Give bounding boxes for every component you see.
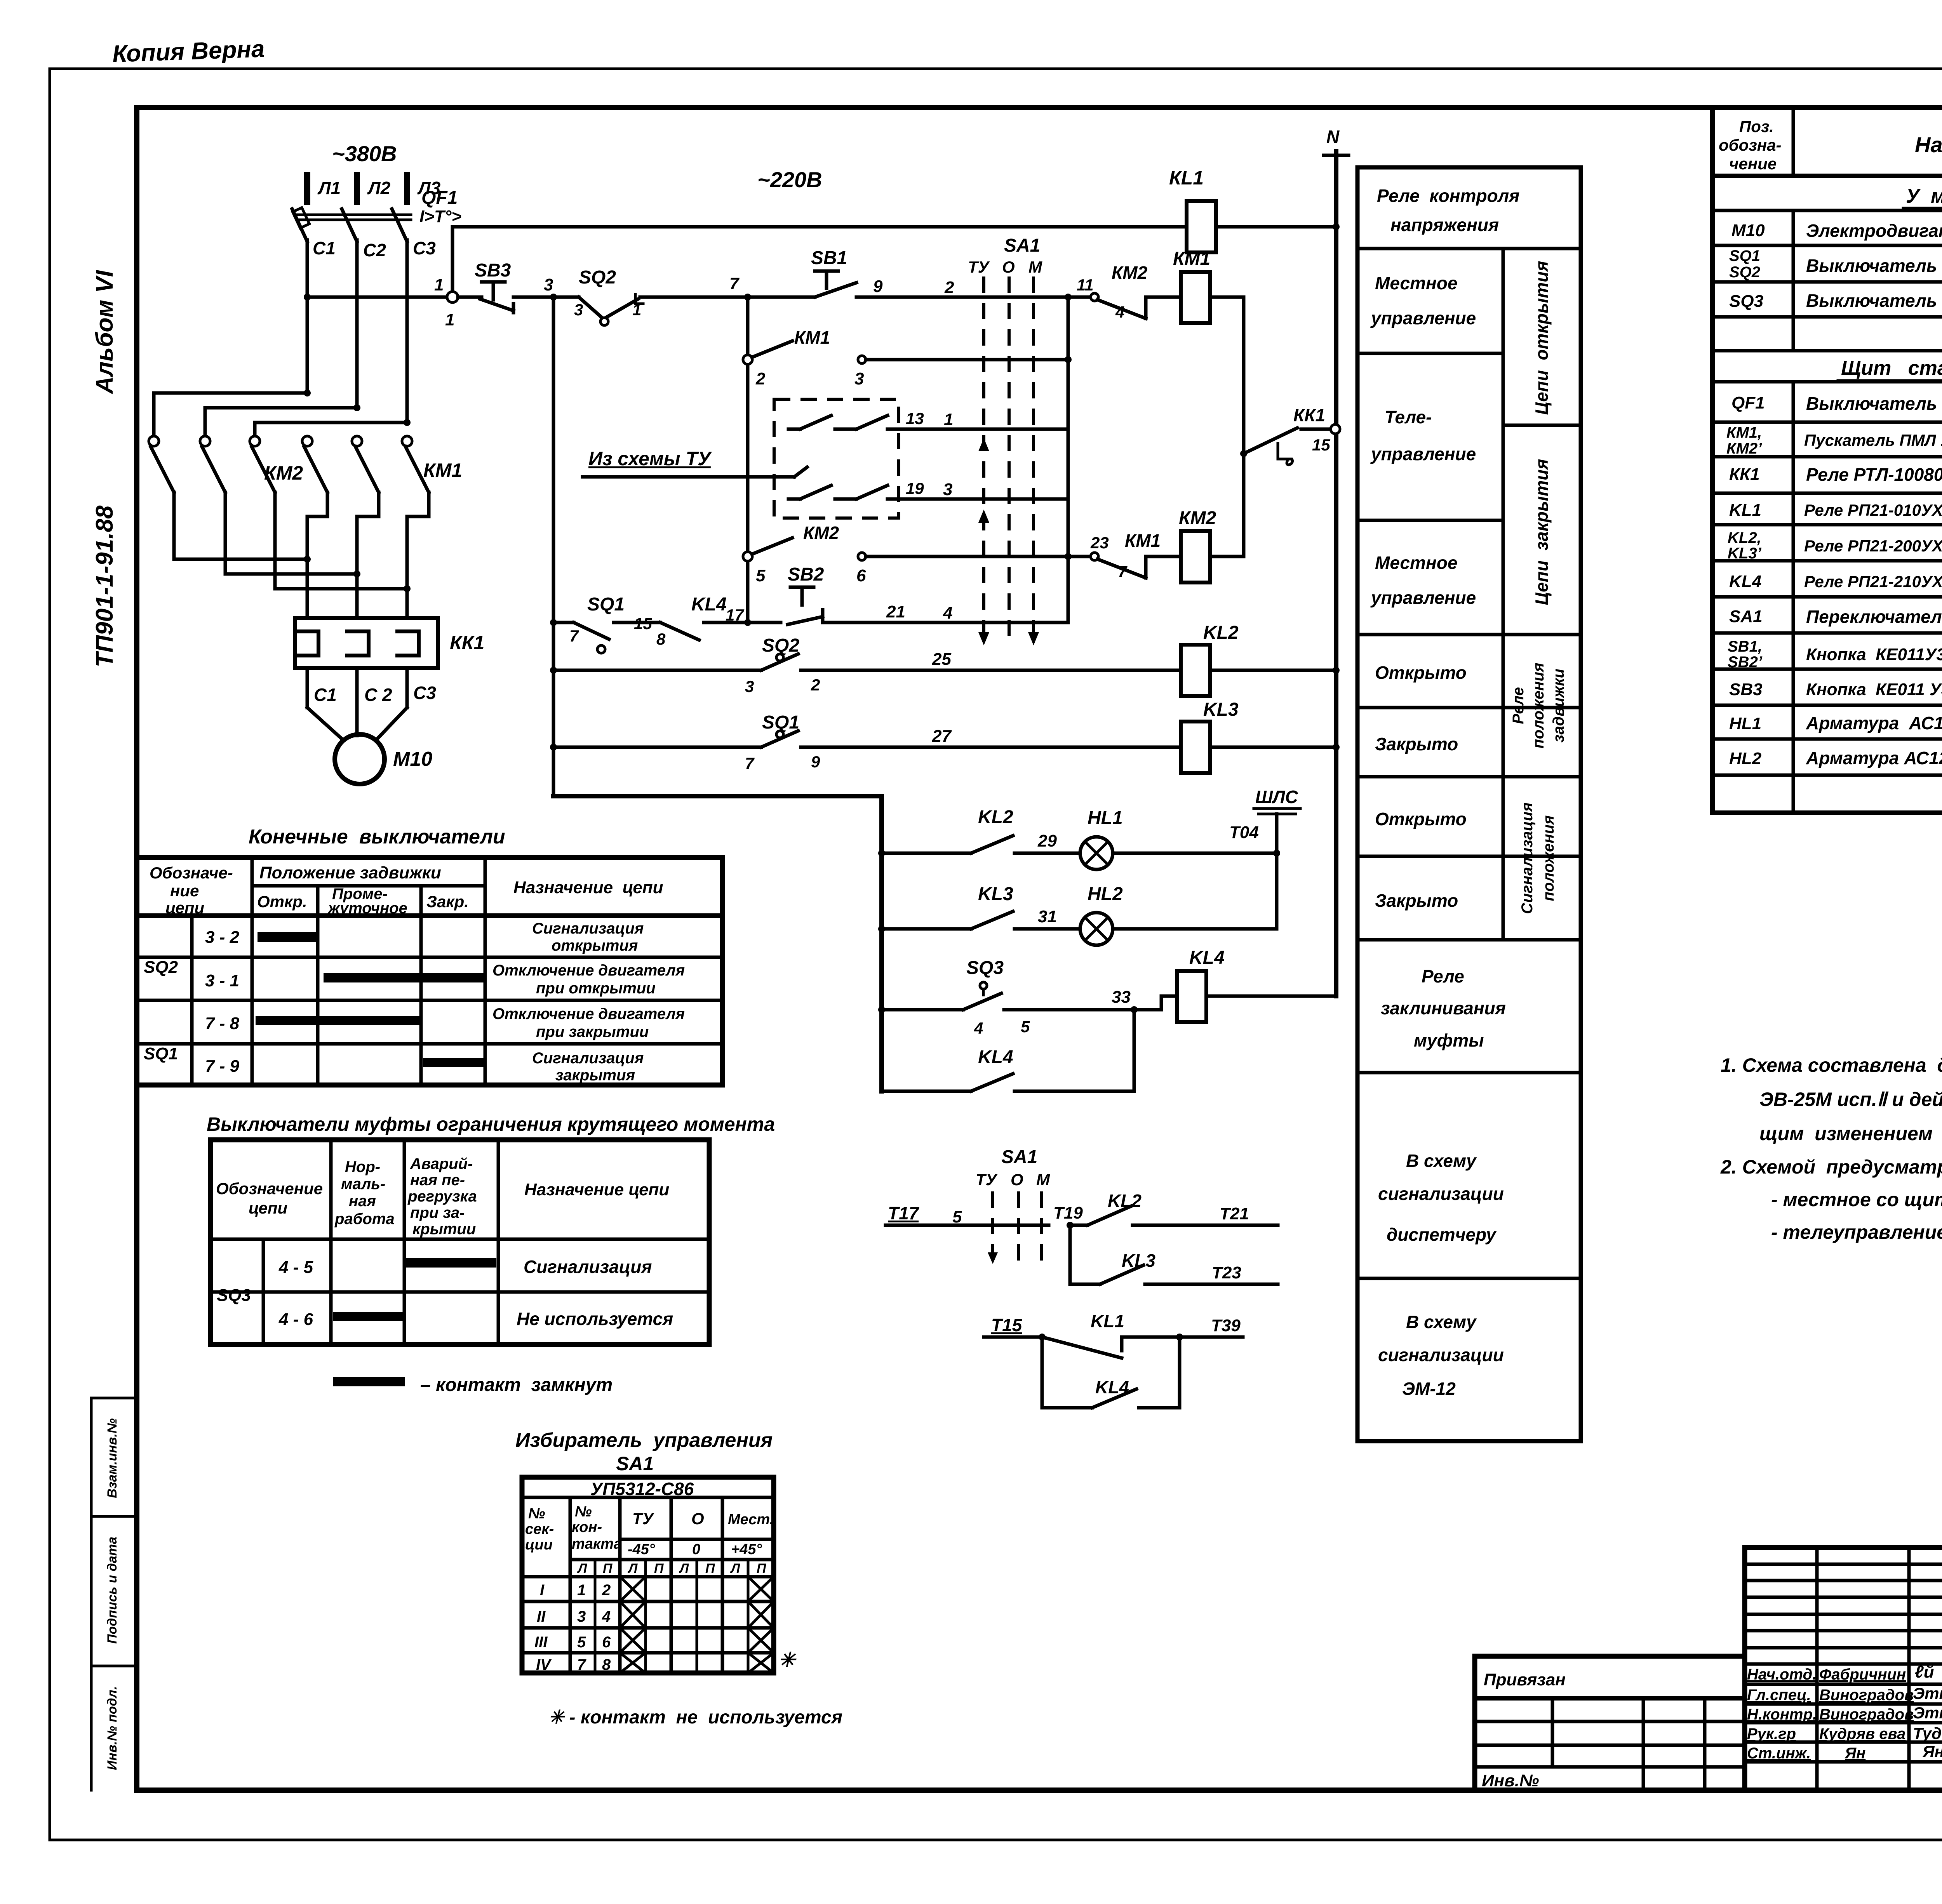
part row KL4 [1729, 570, 1942, 591]
svg-text:Отключение двигателя: Отключение двигателя [492, 1005, 685, 1022]
wire to T39 [1122, 1316, 1243, 1341]
contact KL2 telemetry [1070, 1191, 1142, 1225]
table limit switches frame [137, 857, 722, 1085]
svg-text:Инв.№: Инв.№ [1482, 1771, 1539, 1790]
left rail from node 3 down [552, 297, 555, 796]
label: to dispatcher signalling [1378, 1151, 1504, 1245]
svg-text:Обозначение: Обозначение [216, 1179, 323, 1198]
svg-text:Гл.спец.: Гл.спец. [1747, 1687, 1811, 1704]
svg-text:КМ1: КМ1 [1125, 530, 1161, 551]
svg-text:Л2: Л2 [367, 178, 391, 198]
svg-text:Реле контроля: Реле контроля [1377, 186, 1519, 206]
svg-text:Т04: Т04 [1229, 823, 1259, 842]
wire KM2 pole 1 to phase A junction [174, 492, 311, 563]
rung KL2 signal open: wire start [550, 667, 761, 674]
svg-text:SB3: SB3 [1729, 680, 1763, 699]
wire rung2 to right vertical [866, 356, 1072, 363]
wire 27 to KL3 coil [801, 727, 1181, 747]
svg-text:кон-: кон- [572, 1519, 602, 1535]
svg-text:SQ2: SQ2 [579, 267, 616, 288]
selector SA1 dashed lines upper [968, 235, 1042, 645]
selector table SA1 [522, 1477, 774, 1673]
svg-text:21: 21 [886, 602, 905, 621]
table1 row labels [144, 928, 240, 1076]
section heading: control station board 1Shch [1838, 357, 1942, 381]
label: tele control [1370, 407, 1476, 464]
svg-text:Кнопка КЕ011 У3 исп. 5 толк,: Кнопка КЕ011 У3 исп. 5 толк, красный [1806, 680, 1942, 699]
svg-text:при открытии: при открытии [536, 980, 656, 997]
svg-text:Избиратель управления: Избиратель управления [515, 1429, 773, 1452]
label: clutch jam relay [1381, 966, 1506, 1050]
svg-text:П: П [705, 1561, 715, 1576]
svg-text:ние: ние [170, 882, 199, 900]
top 220V bus wire [452, 225, 1187, 229]
svg-text:заклинивания: заклинивания [1381, 998, 1506, 1018]
note line "Iz skhemy TU" [583, 448, 807, 477]
svg-text:SA1: SA1 [1004, 235, 1040, 256]
svg-text:КМ2: КМ2 [1179, 508, 1216, 529]
svg-text:такта: такта [572, 1536, 622, 1552]
relay coil KL1 [1169, 167, 1216, 252]
svg-text:Сигнализация: Сигнализация [1519, 802, 1536, 914]
svg-text:КМ1: КМ1 [1173, 249, 1210, 269]
svg-text:Т21: Т21 [1220, 1204, 1249, 1223]
table1 purpose texts [492, 920, 685, 1084]
svg-text:ции: ции [525, 1537, 553, 1553]
rung SQ1 KL4 SB2: wire start [550, 619, 574, 626]
svg-text:IV: IV [536, 1656, 552, 1673]
svg-text:Л: Л [730, 1561, 740, 1576]
wire KM1 pole 3 down [407, 492, 429, 618]
svg-text:2. Схемой предусматривается: 2. Схемой предусматривается два вида упр… [1720, 1156, 1942, 1178]
svg-text:19: 19 [906, 479, 924, 497]
rotated label: opening circuits [1531, 261, 1552, 415]
svg-text:Рук.гр: Рук.гр [1747, 1725, 1796, 1742]
svg-text:Реле РП21-210УХЛ4 с розеткой т: Реле РП21-210УХЛ4 с розеткой типа З U~22… [1804, 572, 1942, 591]
svg-text:Альбом VI: Альбом VI [91, 270, 118, 395]
telecontrol dashed box [774, 399, 899, 518]
svg-text:SA1: SA1 [616, 1453, 654, 1475]
svg-text:Виноградов: Виноградов [1819, 1706, 1914, 1723]
svg-text:II: II [537, 1608, 546, 1625]
svg-text:Этт: Этт [1913, 1704, 1942, 1722]
svg-text:KL1: KL1 [1729, 501, 1761, 520]
parts table grid [1712, 108, 1942, 813]
svg-text:Открыто: Открыто [1375, 809, 1467, 829]
pushbutton SB2 (NC) [788, 564, 824, 624]
svg-text:2: 2 [755, 369, 766, 388]
node T19 [1053, 1203, 1083, 1229]
svg-text:Н.контр.: Н.контр. [1747, 1706, 1817, 1723]
wire to T23 [1145, 1263, 1278, 1284]
svg-text:задвижки: задвижки [1550, 669, 1567, 742]
svg-text:6: 6 [602, 1634, 611, 1651]
title block signature grid [1745, 1548, 1942, 1790]
wire T15 rung [984, 1315, 1046, 1341]
svg-text:Арматура АС1201393 U~220В: Арматура АС1201393 U~220В [1806, 748, 1942, 768]
svg-text:Л: Л [679, 1561, 689, 1576]
svg-text:SA1: SA1 [1729, 607, 1763, 626]
svg-text:Переключатель УП5312-С86У3: Переключатель УП5312-С86У3 [1806, 607, 1942, 627]
svg-text:3: 3 [854, 369, 864, 388]
svg-text:КМ2’: КМ2’ [1726, 440, 1762, 457]
svg-text:Конечные выключатели: Конечные выключатели [249, 826, 505, 848]
handwritten stamp "Kopiya Verna" top-left [112, 35, 265, 68]
clutch switch SQ3 contact [963, 958, 1030, 1037]
svg-text:диспетчеру: диспетчеру [1387, 1224, 1497, 1245]
svg-text:Реле РТЛ-10080✱4В Iнэ=2,65А: Реле РТЛ-10080✱4В Iнэ=2,65А [1806, 464, 1942, 485]
svg-text:I: I [540, 1582, 545, 1599]
svg-text:KL3: KL3 [978, 884, 1013, 904]
svg-text:3: 3 [577, 1608, 586, 1625]
svg-text:7 - 8: 7 - 8 [205, 1014, 240, 1033]
travel switch SQ1 contact [569, 594, 666, 653]
wire SB2 to right vertical, numbers 21 and 4 [823, 602, 1068, 622]
svg-text:Реле РП21-010УХЛ4 с розеткой т: Реле РП21-010УХЛ4 с розеткой типа 3 U~22… [1804, 501, 1942, 519]
svg-text:цепи: цепи [249, 1199, 287, 1217]
svg-text:жуточное: жуточное [327, 900, 407, 917]
svg-text:Т15: Т15 [991, 1315, 1023, 1335]
contact KL4 bypass telemetry [1042, 1337, 1180, 1408]
svg-text:SB2’: SB2’ [1728, 654, 1763, 671]
svg-text:SQ1: SQ1 [144, 1044, 178, 1063]
wire HL1 to SHLS riser, number 104 [1113, 823, 1280, 857]
svg-text:ТУ: ТУ [632, 1509, 655, 1528]
svg-text:~380В: ~380В [332, 141, 397, 166]
relay coil KL3 [1181, 699, 1239, 773]
svg-text:SB2: SB2 [788, 564, 824, 585]
svg-text:В схему: В схему [1406, 1151, 1477, 1171]
wire rung1 SA1 to KM2 contact, number 11 [1065, 276, 1094, 301]
svg-text:7: 7 [745, 754, 755, 772]
part row SB3 [1729, 679, 1942, 699]
svg-text:С1: С1 [314, 685, 337, 705]
svg-text:цепи: цепи [165, 899, 204, 917]
svg-text:+45°: +45° [731, 1541, 762, 1558]
thermal overload relay KK1 [295, 618, 484, 668]
svg-text:обозна-: обозна- [1719, 136, 1781, 154]
svg-text:Наименование: Наименование [1915, 132, 1942, 157]
svg-text:ТП901-1-91.88: ТП901-1-91.88 [91, 505, 118, 667]
svg-text:Нор-: Нор- [345, 1158, 380, 1175]
table1 headers [150, 863, 663, 917]
svg-text:1: 1 [944, 410, 953, 429]
svg-text:напряжения: напряжения [1390, 215, 1499, 235]
wire KM1 pole 2 down [357, 492, 379, 618]
svg-text:Копия Верна: Копия Верна [112, 35, 265, 68]
svg-text:SQ3: SQ3 [1729, 292, 1763, 311]
svg-text:КМ2: КМ2 [264, 462, 303, 484]
svg-text:М10: М10 [1731, 221, 1765, 240]
svg-text:Цепи закрытия: Цепи закрытия [1531, 459, 1552, 605]
pushbutton SB1 (NO) [811, 248, 856, 297]
contact KM2 NC interlock on rung 1 [1091, 263, 1148, 321]
svg-text:Закрыто: Закрыто [1375, 734, 1458, 754]
svg-text:KL3: KL3 [1203, 699, 1239, 720]
svg-text:С 2: С 2 [364, 685, 392, 705]
svg-text:при закрытии: при закрытии [536, 1023, 649, 1040]
neutral bus N [1324, 151, 1349, 996]
contactor coil KM2 [1179, 508, 1216, 583]
wire phase B QF1 to crossover [355, 240, 359, 408]
wire KM2 pole 3 to phase C junction [275, 492, 411, 592]
svg-text:4: 4 [1115, 303, 1124, 321]
svg-text:Нач.отд.: Нач.отд. [1747, 1666, 1817, 1683]
KL4 self-hold bypass rung [882, 1010, 1134, 1091]
wire KM1 coil to right rail [1210, 297, 1244, 556]
svg-text:сигнализации: сигнализации [1378, 1184, 1504, 1204]
lamp rung HL2: wire start [878, 925, 971, 932]
svg-text:N: N [1326, 127, 1340, 147]
rung KL3 signal closed: wire start [550, 744, 761, 751]
contact KL3 telemetry [1070, 1250, 1155, 1284]
label: local control (open) [1370, 273, 1476, 328]
svg-text:Фабричнин: Фабричнин [1819, 1666, 1906, 1683]
table2 headers [216, 1155, 669, 1238]
part row SA1 [1729, 606, 1942, 627]
svg-text:Поз.: Поз. [1739, 117, 1774, 136]
svg-text:Тудфр,: Тудфр, [1913, 1724, 1942, 1742]
svg-text:0: 0 [692, 1541, 700, 1558]
TU contact pair lower [788, 485, 899, 499]
svg-text:КL1: КL1 [1169, 167, 1204, 189]
relay coil KL2 [1181, 622, 1239, 696]
wire riser node1 to bus [451, 227, 454, 297]
svg-text:П: П [603, 1561, 613, 1576]
wire 25 to KL2 coil [801, 650, 1181, 670]
wire phase C QF1 to crossover [405, 240, 409, 423]
svg-text:Ян: Ян [1922, 1742, 1942, 1761]
svg-text:КК1: КК1 [1293, 405, 1325, 425]
svg-text:С2: С2 [363, 240, 386, 260]
left margin vertical text TP901-1-91.88 Album VI [91, 270, 118, 667]
selector X marks TU-L column [620, 1577, 646, 1673]
svg-text:ная: ная [349, 1193, 376, 1210]
crossover wire to KM2 pole 2 [205, 404, 360, 436]
wire bus to N after KL1 [1216, 223, 1340, 230]
svg-text:чение: чение [1729, 155, 1777, 173]
svg-text:ТУ: ТУ [976, 1170, 998, 1189]
svg-text:№: № [528, 1506, 545, 1522]
svg-text:3: 3 [745, 677, 754, 696]
svg-text:4: 4 [974, 1019, 983, 1037]
svg-text:Виноградов: Виноградов [1819, 1687, 1914, 1704]
svg-text:Этт: Этт [1913, 1684, 1942, 1702]
wire KL2 coil to N [1210, 667, 1340, 674]
wire rung3 to KM1 interlock [866, 553, 1091, 560]
svg-text:KL2,: KL2, [1728, 529, 1761, 546]
svg-text:QF1: QF1 [1731, 393, 1765, 412]
svg-text:SQ1: SQ1 [587, 594, 625, 615]
thermal contact KK1 [1240, 405, 1340, 465]
svg-text:муфты: муфты [1414, 1030, 1484, 1050]
lamp HL1 [1080, 808, 1123, 869]
lamp rung HL1: wire start [878, 850, 971, 857]
svg-text:Пускатель ПМЛ 15010✱4В с 2-мя: Пускатель ПМЛ 15010✱4В с 2-мя ПКЛ200✱4;U… [1804, 431, 1942, 449]
svg-text:управление: управление [1370, 308, 1476, 328]
title block outer [1745, 1548, 1942, 1790]
svg-text:Реле: Реле [1422, 966, 1464, 986]
svg-text:25: 25 [932, 650, 951, 669]
contact KM1 aux self-hold [752, 327, 866, 388]
svg-text:сигнализации: сигнализации [1378, 1345, 1504, 1365]
svg-text:Местное: Местное [1375, 273, 1457, 293]
selector table data rows [534, 1582, 611, 1673]
lamp HL2 [1080, 884, 1123, 945]
svg-text:7: 7 [1118, 562, 1128, 581]
svg-text:KL1: KL1 [1091, 1311, 1124, 1331]
svg-text:положения: положения [1530, 663, 1547, 749]
svg-text:5: 5 [952, 1207, 962, 1226]
svg-text:SB1: SB1 [811, 248, 847, 268]
label: closed (signal) [1375, 890, 1458, 911]
svg-text:HL1: HL1 [1088, 808, 1123, 828]
svg-text:сек-: сек- [525, 1521, 554, 1537]
svg-text:Реле РП21-200УХЛ4 с розеткой т: Реле РП21-200УХЛ4 с розеткой типа 3 U~22… [1804, 537, 1942, 555]
svg-text:KL2: KL2 [1203, 622, 1239, 643]
supply terminal L1 [307, 172, 341, 205]
svg-text:2: 2 [602, 1582, 611, 1599]
svg-text:7 - 9: 7 - 9 [205, 1057, 240, 1076]
wire SQ2 to SB1 [640, 296, 815, 299]
wire KM2 pole 2 to phase B junction [225, 492, 360, 577]
svg-text:Местное: Местное [1375, 553, 1457, 573]
svg-text:SQ3: SQ3 [217, 1286, 251, 1305]
motor M10 [335, 734, 432, 784]
svg-text:QF1: QF1 [421, 188, 458, 208]
part row KL1 [1729, 499, 1942, 520]
svg-text:Т17: Т17 [888, 1203, 920, 1223]
svg-text:Откр.: Откр. [257, 892, 307, 911]
svg-text:SQ3: SQ3 [966, 958, 1004, 978]
label: local control (close) [1370, 553, 1476, 608]
svg-text:13: 13 [906, 409, 924, 428]
left margin stamp strip [91, 1398, 137, 1790]
part row SQ1 SQ2 [1729, 247, 1942, 281]
svg-text:8: 8 [602, 1656, 611, 1673]
legend closed contact [333, 1375, 613, 1395]
svg-text:HL2: HL2 [1088, 884, 1123, 904]
wire HL2 to SHLS riser corner [1113, 853, 1277, 929]
rotated label: closing circuits [1531, 459, 1552, 605]
svg-text:Обозначе-: Обозначе- [150, 864, 233, 882]
svg-text:9: 9 [873, 277, 883, 296]
svg-text:Ст.инж.: Ст.инж. [1747, 1745, 1811, 1762]
svg-text:9: 9 [811, 753, 820, 771]
svg-text:HL1: HL1 [1729, 714, 1761, 733]
wire KM2 coil to right rail [1210, 555, 1244, 558]
svg-text:ℓй: ℓй [1915, 1662, 1934, 1681]
svg-text:SQ2: SQ2 [144, 958, 178, 977]
svg-text:23: 23 [1090, 534, 1109, 552]
crossover wire to KM2 pole 1 [154, 389, 311, 436]
svg-text:Электродвигатель 4АХС80А4 1,3: Электродвигатель 4АХС80А4 1,3кВт 380В [1806, 221, 1942, 241]
svg-text:О: О [1002, 258, 1015, 276]
svg-text:С3: С3 [413, 683, 436, 703]
wire 19 from dashed box, number 3 [899, 479, 1068, 499]
wire phase A tap to node 1 [304, 294, 447, 301]
contact KM1 NC interlock on KM2 rung [1090, 530, 1161, 581]
svg-text:Л: Л [627, 1561, 638, 1576]
supply terminal L2 [357, 172, 391, 205]
svg-text:3: 3 [544, 275, 553, 294]
wire SB3 to node 3 [513, 296, 579, 299]
svg-text:KL2: KL2 [978, 807, 1013, 828]
wire to T21 [1133, 1204, 1278, 1225]
svg-text:✳ - контакт не используется: ✳ - контакт не используется [548, 1707, 842, 1728]
relay coil KL4 [1177, 948, 1225, 1022]
wire node7 down rail [746, 297, 750, 622]
svg-text:М: М [1028, 258, 1042, 276]
svg-text:4: 4 [943, 603, 952, 622]
svg-text:Подпись и дата: Подпись и дата [105, 1537, 120, 1644]
svg-text:4 - 5: 4 - 5 [278, 1258, 313, 1277]
svg-text:KL4: KL4 [1729, 572, 1761, 591]
svg-text:ная пе-: ная пе- [410, 1172, 465, 1189]
svg-text:1: 1 [577, 1582, 586, 1599]
travel switch SQ1 contact (signal closed) [745, 712, 820, 772]
label: open (relay) [1375, 662, 1467, 683]
svg-text:Привязан: Привязан [1484, 1670, 1566, 1689]
label: to EM-12 signalling [1378, 1312, 1504, 1399]
svg-text:Реле: Реле [1510, 687, 1527, 724]
svg-text:работа: работа [334, 1210, 395, 1228]
travel switch SQ2 contact (signal open) [745, 635, 820, 696]
svg-text:3 - 2: 3 - 2 [205, 928, 240, 947]
node 5 [743, 552, 766, 585]
rotated label: position signalling [1519, 802, 1557, 914]
svg-text:В схему: В схему [1406, 1312, 1477, 1332]
wire phase A QF1 to crossover [306, 240, 309, 393]
svg-text:Кнопка КЕ011У3 исп. 4 толк.: Кнопка КЕ011У3 исп. 4 толк. черный [1806, 645, 1942, 664]
contact KL4 in closing circuit [660, 594, 744, 640]
svg-text:Мест.: Мест. [728, 1511, 774, 1528]
svg-text:КМ1: КМ1 [423, 459, 462, 481]
svg-text:Выключатель АЕ2026-10НУ3-Б Iр: Выключатель АЕ2026-10НУ3-Б Iр=5А [1806, 393, 1942, 414]
svg-text:~220В: ~220В [757, 167, 822, 192]
wire 13 from dashed box, number 1 [899, 409, 1068, 429]
svg-text:KL4: KL4 [1189, 948, 1225, 968]
wire T17 rung [886, 1203, 1049, 1226]
svg-text:5: 5 [1021, 1017, 1030, 1036]
wire SB1 to SA1 crossing, numbers 9 and 2 [856, 277, 1068, 297]
svg-text:5: 5 [756, 566, 766, 585]
svg-text:С3: С3 [413, 238, 436, 258]
node 3 [544, 275, 557, 301]
svg-text:Положение задвижки: Положение задвижки [259, 863, 441, 882]
wire 31 to lamp HL2 [1015, 907, 1080, 929]
svg-text:2: 2 [811, 676, 820, 694]
svg-text:3: 3 [943, 480, 952, 499]
svg-text:ТУ: ТУ [968, 258, 990, 276]
svg-text:маль-: маль- [341, 1175, 385, 1193]
svg-text:открытия: открытия [552, 937, 638, 954]
svg-text:Л: Л [577, 1561, 587, 1576]
svg-text:Ян: Ян [1845, 1745, 1865, 1762]
part row KM1 KM2 [1726, 424, 1942, 457]
table clutch switches frame [211, 1140, 709, 1344]
circuit breaker QF1 [292, 188, 461, 242]
svg-text:Л1: Л1 [317, 178, 341, 198]
svg-text:27: 27 [932, 727, 952, 746]
svg-text:SQ2: SQ2 [1729, 264, 1760, 281]
part row KL2 KL3 [1728, 529, 1942, 562]
svg-text:Выключатель муфты: Выключатель муфты [1806, 290, 1942, 311]
svg-text:5: 5 [577, 1634, 586, 1651]
binding box Privyazan [1475, 1656, 1745, 1790]
svg-text:С1: С1 [313, 238, 336, 258]
wire 29 to lamp HL1 [1015, 831, 1080, 853]
